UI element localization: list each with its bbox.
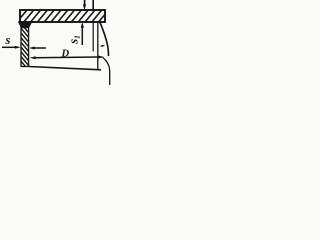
label s1 (rotated): [67, 35, 82, 45]
upper right curve (flange inner surface): [100, 23, 109, 57]
background: [0, 0, 116, 85]
vertical line at x=97.8: [97, 22, 99, 70]
s dimension left arrow: [2, 46, 21, 49]
s dimension right arrow: [29, 47, 46, 50]
D dimension line with arrows: [30, 56, 105, 60]
small r mark: [101, 45, 106, 47]
shell wall (hatched): [21, 24, 29, 75]
inner bottom surface line: [29, 67, 101, 70]
s1 dimension upper arrow (down): [83, 0, 86, 10]
lower right corner arc into vertical: [103, 57, 110, 85]
extension line x=93 above bar: [92, 0, 94, 10]
flat plate (hatched bar): [17, 10, 109, 22]
extension line x=93 below bar: [92, 22, 94, 52]
s1 dimension lower arrow (up): [81, 22, 84, 45]
svg-text:s: s: [5, 33, 11, 47]
weld seam (solid black): [18, 21, 33, 28]
